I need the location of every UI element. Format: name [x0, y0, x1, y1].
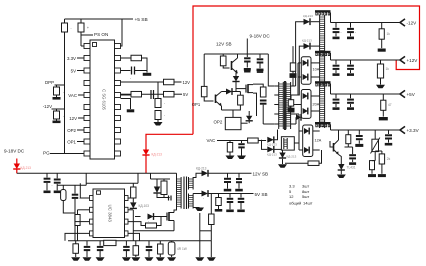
- connector arrow -12V: [400, 19, 405, 26]
- pack D14 feeds: [298, 62, 301, 64]
- svg-text:-: -: [63, 114, 64, 118]
- resistor R34: [370, 161, 375, 170]
- svg-text:47: 47: [388, 103, 392, 107]
- U2 left pin 2: [90, 207, 94, 212]
- resistor R9: [155, 99, 161, 108]
- wire R22 to Q2: [204, 97, 213, 101]
- svg-text:КД-213: КД-213: [196, 167, 207, 171]
- wire D8 to node: [233, 91, 241, 93]
- diode D17 3p3: [291, 123, 296, 125]
- resistor R2 pullup: [80, 19, 82, 23]
- red input diode VD1: [16, 159, 18, 164]
- ground C15: [125, 251, 127, 257]
- zener VD2: [233, 76, 239, 82]
- T2 sec bottom winding: [188, 194, 190, 209]
- wire sec riser A: [296, 22, 304, 86]
- svg-text:-12V: -12V: [407, 21, 418, 26]
- ground divider: [157, 120, 159, 123]
- wire R2 to PS-ON: [80, 32, 82, 46]
- U1 right pin 20: [115, 44, 121, 49]
- bottom wire row2: [68, 240, 211, 242]
- T2 core: [183, 177, 185, 210]
- resistor R6: [164, 79, 175, 85]
- diode D18 clamp: [282, 150, 284, 152]
- wire D11 to aux: [275, 148, 282, 150]
- T2 sec top winding: [188, 177, 190, 190]
- U1 right pin 15: [115, 105, 121, 110]
- snubber top wire: [151, 178, 171, 180]
- svg-text:КД-213: КД-213: [267, 142, 277, 146]
- svg-text:+5 SB: +5 SB: [135, 17, 148, 23]
- svg-text:12V: 12V: [183, 80, 191, 85]
- ground R19: [135, 255, 137, 257]
- wire VCC feed left segment: [57, 184, 86, 186]
- capacitor C28: [335, 60, 337, 64]
- wire pin17 12V sense: [121, 81, 164, 83]
- T1 left pin 5: [274, 123, 278, 125]
- wire R7 on: [142, 93, 164, 95]
- resistor R15 5VSB load: [218, 194, 220, 198]
- wire RP1 up: [374, 130, 376, 139]
- T1 right pin 3: [291, 104, 296, 106]
- ground RV1: [171, 255, 173, 257]
- wire R35 top link: [375, 150, 382, 152]
- transistor Q1 pass: [231, 61, 233, 70]
- wire VCC to U2 area: [86, 182, 138, 184]
- wire U2 pin7: [128, 209, 133, 211]
- main input rail wire: [17, 172, 177, 174]
- wire 5VSB rail: [209, 193, 254, 195]
- svg-text:-: -: [71, 26, 72, 30]
- wire U2 pin5 down: [128, 233, 140, 240]
- wire Q1 collector up: [237, 54, 239, 58]
- diode D11: [267, 146, 274, 152]
- wire D13 out: [311, 45, 320, 47]
- aux winding L2 box: [281, 137, 294, 150]
- svg-text:DPP: DPP: [45, 80, 54, 85]
- U1 left pin 8: [84, 128, 90, 133]
- wire coil +3.3V out: [330, 124, 332, 130]
- wire VCC riser right: [137, 173, 139, 183]
- wire pin15 to gnd cap: [121, 94, 131, 96]
- rail +5V wire: [331, 93, 400, 95]
- ground R31: [380, 78, 382, 85]
- magamp pot RP1: [372, 139, 379, 151]
- wire 12VSB reg rail: [204, 53, 268, 55]
- ground C33: [352, 160, 354, 162]
- wire 9-18V feed: [246, 39, 248, 55]
- U2 pin1 mark: [97, 191, 101, 195]
- ground C21: [259, 64, 261, 69]
- ground bar pin19: [143, 73, 152, 76]
- capacitor C21: [259, 54, 261, 58]
- varistor RV1: [171, 241, 173, 242]
- wire DPP: [55, 84, 65, 86]
- U2 left pin 4: [90, 231, 94, 236]
- connector arrow +3.3V: [400, 126, 405, 133]
- diode D8: [226, 89, 232, 95]
- U2 left pin 1: [90, 196, 94, 201]
- diode D6 12VSB: [202, 170, 209, 176]
- svg-text:КД-103: КД-103: [139, 204, 150, 208]
- diode D10: [267, 137, 274, 143]
- U1 pin1 mark: [93, 43, 97, 47]
- pack D16 outs: [313, 130, 320, 132]
- svg-text:UC 3843: UC 3843: [108, 205, 113, 223]
- wire R8 to label: [174, 93, 182, 95]
- resistor R24: [260, 87, 266, 97]
- choke winding column: [319, 15, 321, 128]
- wire +5SB to IC1 pin20: [121, 19, 123, 46]
- mosfet Q3 switch: [166, 213, 168, 221]
- wire D3 down: [132, 210, 134, 241]
- svg-text:+5V: +5V: [407, 92, 416, 97]
- wire U2 pin1 left: [80, 183, 89, 198]
- capacitor C6: [150, 90, 152, 99]
- capacitor C10 12VSB: [238, 173, 240, 178]
- U1 left pin 3: [84, 68, 90, 73]
- wire coil +5V out: [330, 84, 332, 95]
- wire Q4 connect: [236, 88, 246, 90]
- svg-text:-: -: [164, 113, 165, 117]
- wire C19 down: [74, 199, 76, 241]
- wire 12VSB rail: [209, 172, 252, 174]
- wire coil +12V out: [330, 53, 332, 60]
- U1 left pin 10: [84, 151, 90, 156]
- ground sense2: [210, 241, 212, 257]
- diode D13 -12V b: [304, 43, 311, 49]
- wire D9 up: [248, 111, 250, 116]
- choke coil +3.3V: [315, 122, 331, 124]
- resistor R26 vac div: [229, 141, 231, 143]
- capacitor C27: [350, 23, 352, 28]
- wire R25 to D10: [258, 140, 266, 142]
- wire pin15 branch down: [121, 99, 131, 110]
- svg-text:+3.3V: +3.3V: [407, 128, 420, 133]
- wire D11 link: [262, 140, 268, 150]
- U1 right pin 14: [115, 116, 121, 121]
- pack D14 outs: [311, 62, 320, 64]
- wire T2 mid sec out: [193, 193, 201, 195]
- red wire from box to standby primary: [146, 134, 193, 149]
- svg-text:8шт: 8шт: [302, 189, 309, 194]
- wire sense divider vertical: [157, 82, 159, 99]
- U1 right pin 16: [115, 93, 121, 98]
- U1 right pin 13: [115, 128, 121, 133]
- T1 right pin 2: [291, 94, 296, 96]
- transformer T1 body left winding: [278, 82, 280, 129]
- ground C18: [56, 184, 58, 191]
- U1 right pin 17: [115, 81, 121, 86]
- svg-text:5V: 5V: [183, 92, 188, 97]
- pack D16 feeds: [296, 113, 299, 115]
- wire R23 down: [222, 105, 241, 110]
- svg-text:3.3: 3.3: [289, 184, 295, 189]
- ground R17: [75, 253, 77, 257]
- wire T1 pin3 link: [263, 123, 274, 125]
- wire Q5 emitter: [339, 155, 342, 165]
- svg-text:-12V: -12V: [43, 104, 52, 109]
- svg-text:общий: общий: [289, 201, 301, 206]
- svg-text:КД-213: КД-213: [152, 153, 163, 157]
- svg-text:-: -: [341, 30, 342, 34]
- thermistor RT1: [62, 185, 64, 189]
- U2 right pin 7: [125, 207, 129, 212]
- U1 left pin 4: [84, 81, 90, 86]
- svg-text:-: -: [148, 219, 149, 223]
- resistor R1 pullup: [64, 19, 66, 23]
- ground C11: [229, 203, 231, 209]
- svg-text:1k: 1k: [386, 67, 390, 71]
- svg-text:5V: 5V: [71, 69, 76, 74]
- U1 left pin 6: [84, 105, 90, 110]
- wire opto out: [253, 93, 257, 116]
- svg-text:-: -: [79, 196, 80, 200]
- svg-text:12: 12: [289, 194, 294, 199]
- svg-text:20А: 20А: [313, 103, 320, 107]
- resistor R13 gate: [146, 223, 157, 228]
- snubber diode D5: [156, 185, 158, 187]
- T1 right pin 4: [291, 113, 296, 115]
- svg-text:VAC: VAC: [68, 93, 77, 98]
- +5SB rail wire: [65, 18, 134, 20]
- svg-text:OP1: OP1: [192, 102, 201, 107]
- diode D7 5VSB: [202, 191, 209, 197]
- svg-text:КД-213: КД-213: [302, 39, 312, 43]
- U2 left pin 3: [90, 219, 94, 224]
- wire U2 pin2 left: [78, 209, 90, 211]
- wire pin16 5V sense: [121, 93, 132, 95]
- T1 right winding: [285, 82, 287, 129]
- svg-text:PS ON: PS ON: [94, 32, 108, 37]
- transistor Q5 3p3: [333, 143, 335, 152]
- wire 5V pin: [77, 70, 84, 72]
- ground C27: [350, 33, 352, 36]
- vcc chain resistor R12: [132, 183, 134, 187]
- wire cluster h: [347, 144, 349, 147]
- wire R2 to pin1: [81, 45, 84, 47]
- wire 3.3V pin: [77, 57, 84, 59]
- wire -12V: [52, 108, 65, 110]
- ground C12: [240, 203, 242, 209]
- wire OP2 to diode: [241, 122, 248, 124]
- red highlight box around secondary side: [193, 6, 420, 134]
- diode D9 aux: [246, 116, 252, 121]
- wire C22 down: [262, 105, 264, 124]
- svg-text:12V SB: 12V SB: [216, 41, 232, 46]
- U1 left pin 2: [84, 56, 90, 61]
- wire R13 up to gate node: [157, 217, 162, 226]
- connector arrow +5V: [400, 90, 405, 97]
- wire aux to sense: [199, 213, 201, 241]
- T1 left pin 4: [274, 113, 278, 115]
- ground C31: [350, 104, 352, 107]
- ground C16: [148, 251, 150, 257]
- snubber resistor R14: [161, 181, 167, 195]
- rail -12V wire: [331, 22, 400, 24]
- wire Q1 emitter down: [236, 73, 238, 76]
- ground C13: [86, 251, 88, 257]
- transistor Q2 sense: [215, 95, 217, 104]
- svg-text:12V SB: 12V SB: [253, 172, 269, 177]
- svg-text:1k: 1k: [387, 32, 391, 36]
- U1 left pin 5: [84, 93, 90, 98]
- rectifier pack D14 10A: [301, 57, 311, 84]
- U1 right pin 19: [115, 56, 121, 61]
- wire VCC riser left: [85, 173, 87, 185]
- resistor R21 base: [222, 54, 224, 56]
- rail +12V wire: [331, 59, 400, 61]
- svg-text:2k: 2k: [387, 157, 391, 161]
- resistor R7: [131, 91, 142, 97]
- resistor R18 on row: [104, 240, 116, 245]
- capacitor C16: [148, 241, 150, 246]
- capacitor C30: [335, 94, 337, 98]
- U1 left pin 1: [84, 44, 90, 49]
- wire R34 jog: [372, 160, 375, 162]
- capacitor C9 12VSB: [227, 173, 229, 177]
- wire T2 sec gnd: [193, 207, 199, 209]
- diode D12 -12V a: [304, 19, 311, 25]
- wire aux cross: [200, 230, 212, 232]
- resistor R11 fb: [77, 210, 79, 215]
- ground R3: [56, 95, 58, 97]
- wire RP1 down: [374, 152, 376, 161]
- capacitor C12 5VSB: [240, 194, 242, 198]
- wire T2 top sec out: [193, 173, 201, 177]
- pwm controller U2 UC3843 body: [93, 189, 125, 238]
- bottom wire row1: [133, 230, 174, 232]
- snubber bottom wire: [157, 194, 164, 198]
- capacitor C23 vac: [241, 141, 243, 144]
- pack D15 outs: [311, 95, 320, 97]
- resistor R20 current sense: [159, 241, 161, 244]
- mosfet Q4 aux: [245, 85, 247, 93]
- wire D12 out: [311, 21, 320, 23]
- wire D4 to mosfet gate: [154, 216, 167, 218]
- wire sec riser B: [291, 46, 304, 95]
- ground R35: [381, 164, 383, 174]
- svg-text:КД-213: КД-213: [303, 14, 313, 18]
- svg-text:КД-213: КД-213: [267, 153, 277, 157]
- bottom caps resistor R17: [75, 241, 77, 244]
- U1 right pin 11: [115, 151, 121, 156]
- capacitor C5 series: [131, 67, 133, 75]
- svg-text:-: -: [355, 30, 356, 34]
- svg-text:КД-213: КД-213: [21, 166, 32, 170]
- wire D10 up to T1: [275, 130, 278, 140]
- ground D18: [282, 159, 284, 164]
- ground R26: [229, 152, 231, 156]
- wire coil -12V out: [330, 13, 332, 23]
- wire Q4 right: [253, 84, 263, 87]
- capacitor C34: [388, 130, 390, 134]
- resistor R29: [308, 161, 319, 166]
- ground R20: [159, 254, 161, 257]
- resistor R5: [131, 55, 142, 61]
- wire R21 to Q1 base: [223, 66, 229, 68]
- U1 right pin 18: [115, 68, 121, 73]
- capacitor C15: [125, 241, 127, 246]
- svg-text:PG: PG: [43, 150, 50, 155]
- rectifier pack D15 20A: [301, 90, 311, 119]
- svg-text:OP2: OP2: [214, 120, 223, 125]
- U2 right pin 6: [125, 219, 129, 224]
- ground C34: [388, 140, 390, 143]
- capacitor C33: [349, 154, 356, 156]
- svg-text:9-18V DC: 9-18V DC: [4, 148, 25, 153]
- snubber cap C8: [168, 196, 170, 201]
- wire 12V pin: [78, 117, 84, 119]
- wire U2 gate aux: [135, 216, 141, 218]
- capacitor C26: [335, 23, 337, 28]
- capacitor C22 bars: [260, 100, 267, 102]
- wire 5VSB sense down: [210, 194, 212, 215]
- wire R11 down: [77, 226, 79, 241]
- rectifier pack D16 3.3V: [303, 125, 313, 157]
- svg-text:-: -: [164, 101, 165, 105]
- ground C23: [241, 148, 243, 155]
- snubber C25: [288, 108, 295, 113]
- svg-text:+: +: [87, 26, 89, 30]
- svg-text:-: -: [203, 197, 204, 201]
- capacitor C14: [99, 241, 101, 246]
- snubber C24: [290, 73, 297, 78]
- T1 right pin 5: [291, 123, 296, 125]
- wire OP2 feed: [232, 110, 234, 117]
- resistor R32 load: [382, 94, 384, 100]
- connector arrow +12V: [400, 56, 405, 63]
- U1 left pin 7: [84, 116, 90, 121]
- wire Q2 collector: [222, 91, 227, 93]
- ground bar pin15: [127, 109, 135, 112]
- wire Q3 drain: [174, 209, 177, 213]
- resistor R4 -12V: [56, 109, 58, 111]
- svg-text:10А: 10А: [313, 68, 320, 72]
- ground C17: [46, 183, 48, 190]
- ground R30: [381, 39, 383, 48]
- capacitor C18 input: [56, 173, 58, 178]
- svg-text:OP1: OP1: [67, 140, 76, 145]
- wire Q2 emitter gnd: [221, 106, 223, 110]
- wire U2 pin6 out: [128, 222, 146, 226]
- wire OP2 pin: [77, 129, 84, 131]
- svg-text:TL431: TL431: [347, 166, 356, 170]
- red diode VD source: [143, 150, 149, 156]
- wire PS ON stub: [81, 34, 93, 36]
- ground C28: [335, 70, 337, 73]
- wire Q3 source: [173, 221, 175, 231]
- wire OP1 pin: [77, 141, 84, 143]
- aux winding bumps: [283, 138, 285, 149]
- svg-text:-: -: [63, 90, 64, 94]
- resistor R33: [347, 130, 349, 135]
- wire VAC pin: [78, 94, 84, 96]
- ground C26: [335, 33, 337, 36]
- snubber R27: [292, 46, 294, 63]
- T1 left pin 2: [274, 94, 278, 96]
- svg-text:12V: 12V: [69, 116, 77, 121]
- wire U2 pin4 left: [65, 233, 90, 240]
- svg-text:VAC: VAC: [207, 138, 216, 143]
- ground C32: [358, 140, 360, 143]
- svg-text:-: -: [130, 76, 131, 80]
- ground R15: [218, 206, 220, 210]
- U2 right pin 8: [125, 196, 129, 201]
- ground aux: [199, 241, 201, 257]
- wire R1 rail down-left: [64, 32, 66, 154]
- resistor R35: [381, 151, 383, 154]
